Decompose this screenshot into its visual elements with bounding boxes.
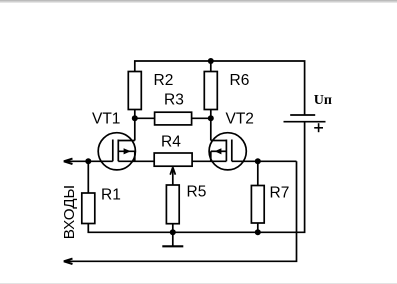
- wire R7 top: [257, 161, 259, 185]
- wire R5 bottom: [172, 224, 174, 233]
- wire R2 bottom: [134, 110, 136, 119]
- resistor R6: [204, 72, 217, 110]
- node R7 bottom: [255, 229, 261, 235]
- wiper arrow of R4: [170, 167, 175, 185]
- svg-text:Uп: Uп: [314, 93, 332, 108]
- svg-text:R6: R6: [230, 72, 250, 89]
- resistor R3: [155, 112, 192, 125]
- node VT2 gate/R7: [255, 158, 261, 164]
- transistor VT1: [98, 118, 135, 170]
- ground: [162, 232, 183, 246]
- wire VT2 gate to node: [232, 160, 297, 162]
- svg-text:VT1: VT1: [92, 111, 120, 128]
- wire VT1 source to R4: [118, 160, 154, 162]
- node VT1 drain: [132, 115, 138, 121]
- battery GB1 plates: [284, 115, 326, 122]
- wire input2 riser: [64, 161, 297, 261]
- wire R1 top: [87, 161, 89, 193]
- node R6 top: [208, 58, 214, 64]
- wire R4 to VT2 source: [192, 160, 226, 162]
- svg-text:ВХОДЫ: ВХОДЫ: [61, 185, 78, 239]
- arrow input1: [64, 159, 73, 164]
- label plus: [314, 123, 323, 132]
- svg-text:VT2: VT2: [226, 111, 254, 128]
- node input1/R1: [85, 158, 91, 164]
- svg-text:R3: R3: [164, 91, 184, 108]
- svg-text:R4: R4: [161, 133, 181, 150]
- wire drain VT1 to R3: [135, 117, 155, 119]
- wire R6 top stub: [210, 61, 212, 72]
- wire R3 to drain VT2: [192, 117, 211, 119]
- node R5 bottom: [170, 229, 176, 235]
- node VT2 drain: [208, 115, 214, 121]
- arrow input2: [64, 259, 73, 264]
- svg-text:R7: R7: [270, 185, 290, 202]
- resistor R1: [82, 193, 95, 224]
- wire top rail: [135, 61, 305, 115]
- wire R1 bottom: [88, 122, 304, 233]
- resistor R7: [251, 186, 264, 224]
- resistor R5: [166, 185, 179, 224]
- resistor R4 potentiometer: [154, 153, 192, 166]
- transistor VT2: [209, 118, 246, 170]
- wire R7 bottom: [257, 223, 259, 232]
- resistor R2: [128, 72, 141, 110]
- svg-text:R1: R1: [101, 186, 121, 203]
- wire input1 to VT1 gate: [64, 160, 113, 162]
- svg-text:R2: R2: [154, 72, 174, 89]
- wire R6 bottom: [210, 110, 212, 119]
- svg-text:R5: R5: [187, 184, 207, 201]
